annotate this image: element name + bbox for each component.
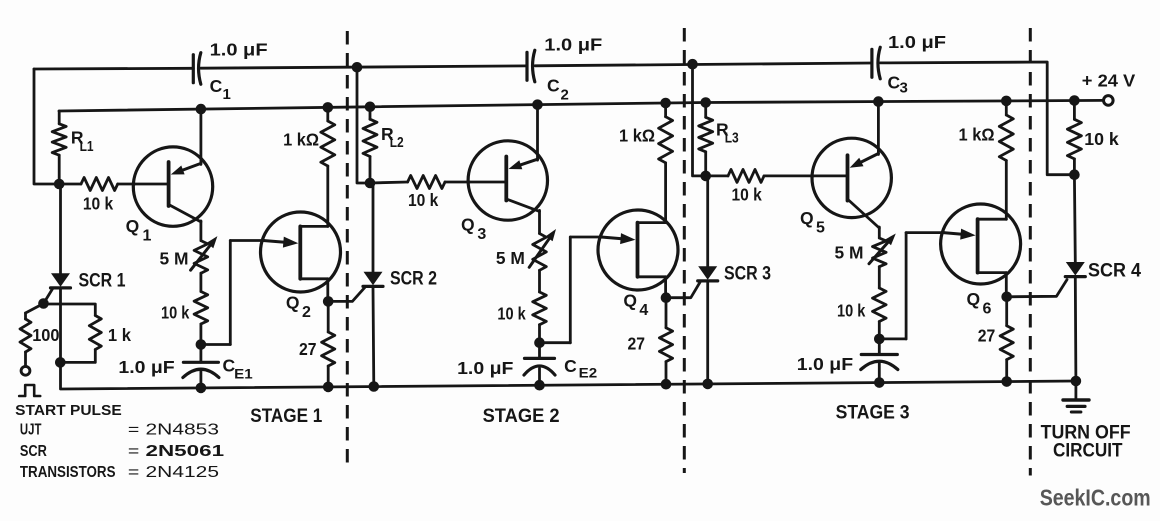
- svg-text:1: 1: [223, 86, 231, 103]
- svg-text:UJT: UJT: [20, 422, 42, 439]
- svg-text:L3: L3: [725, 130, 739, 147]
- svg-text:SCR 3: SCR 3: [724, 264, 771, 285]
- svg-text:1 kΩ: 1 kΩ: [959, 125, 995, 145]
- svg-text:SCR 1: SCR 1: [79, 270, 126, 291]
- svg-text:5 M: 5 M: [835, 243, 864, 263]
- svg-text:3: 3: [900, 80, 908, 97]
- svg-text:27: 27: [978, 326, 996, 346]
- svg-text:10 k: 10 k: [408, 190, 439, 210]
- svg-text:6: 6: [983, 301, 992, 318]
- svg-text:27: 27: [299, 339, 317, 359]
- svg-text:SCR 4: SCR 4: [1088, 261, 1141, 282]
- svg-text:L2: L2: [390, 134, 404, 151]
- svg-text:10 k: 10 k: [83, 194, 114, 214]
- svg-text:1: 1: [143, 228, 152, 245]
- svg-text:1.0 μF: 1.0 μF: [118, 357, 175, 377]
- svg-text:10 k: 10 k: [837, 301, 866, 321]
- svg-text:1.0 μF: 1.0 μF: [457, 358, 514, 378]
- svg-text:STAGE 3: STAGE 3: [836, 403, 910, 424]
- svg-text:1 k: 1 k: [108, 325, 131, 345]
- svg-text:2N4853: 2N4853: [146, 422, 220, 439]
- svg-text:1 kΩ: 1 kΩ: [283, 129, 319, 149]
- svg-text:+ 24 V: + 24 V: [1082, 71, 1136, 91]
- svg-text:L1: L1: [80, 138, 94, 155]
- svg-text:TRANSISTORS: TRANSISTORS: [20, 464, 116, 481]
- svg-text:E2: E2: [579, 366, 598, 381]
- svg-text:5 M: 5 M: [496, 248, 525, 268]
- svg-text:Q: Q: [967, 289, 981, 309]
- svg-text:SCR 2: SCR 2: [390, 269, 437, 290]
- svg-text:Q: Q: [461, 215, 475, 235]
- svg-text:SCR: SCR: [20, 443, 47, 460]
- svg-text:Q: Q: [800, 208, 814, 228]
- svg-text:2: 2: [561, 87, 569, 104]
- svg-text:Q: Q: [623, 291, 637, 311]
- svg-text:=: =: [128, 443, 139, 460]
- svg-text:5 M: 5 M: [160, 248, 189, 268]
- svg-text:2: 2: [302, 304, 311, 321]
- svg-text:1.0 μF: 1.0 μF: [797, 354, 854, 374]
- svg-text:C: C: [547, 76, 560, 96]
- svg-text:START PULSE: START PULSE: [15, 402, 122, 419]
- svg-text:10 k: 10 k: [732, 185, 763, 205]
- svg-text:2N5061: 2N5061: [146, 443, 225, 460]
- svg-text:=: =: [128, 464, 139, 481]
- svg-text:2N4125: 2N4125: [146, 464, 220, 481]
- svg-text:C: C: [210, 76, 223, 96]
- svg-text:Q: Q: [286, 293, 300, 313]
- svg-text:C: C: [564, 356, 577, 376]
- svg-text:27: 27: [628, 334, 646, 354]
- svg-text:=: =: [128, 422, 139, 439]
- svg-text:1.0 μF: 1.0 μF: [888, 32, 946, 52]
- svg-text:3: 3: [477, 226, 486, 243]
- svg-text:10 k: 10 k: [497, 304, 526, 324]
- svg-text:Q: Q: [126, 216, 140, 236]
- svg-text:SeekIC.com: SeekIC.com: [1040, 485, 1151, 511]
- svg-text:CIRCUIT: CIRCUIT: [1053, 441, 1123, 462]
- svg-text:4: 4: [639, 302, 648, 319]
- svg-text:1.0 μF: 1.0 μF: [544, 35, 602, 55]
- svg-text:10 k: 10 k: [161, 303, 190, 323]
- svg-text:5: 5: [816, 220, 825, 237]
- svg-text:STAGE 1: STAGE 1: [250, 406, 322, 427]
- svg-text:100: 100: [32, 325, 60, 345]
- svg-text:10 k: 10 k: [1084, 129, 1119, 149]
- svg-text:1.0 μF: 1.0 μF: [210, 40, 268, 60]
- svg-text:E1: E1: [234, 366, 253, 381]
- svg-text:1 kΩ: 1 kΩ: [619, 126, 655, 146]
- svg-text:STAGE 2: STAGE 2: [483, 406, 560, 427]
